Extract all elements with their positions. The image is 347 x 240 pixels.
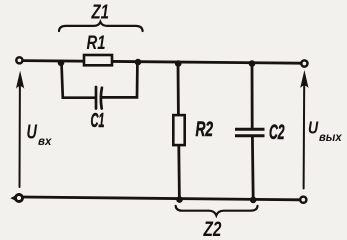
wire bottom — [23, 197, 299, 200]
terminal tail bottom-left — [10, 196, 15, 201]
resistor R1 — [84, 55, 112, 65]
node junction bottom C — [176, 196, 183, 203]
svg-text:U: U — [27, 120, 38, 143]
svg-text:вых: вых — [319, 132, 342, 144]
svg-text:U: U — [308, 118, 318, 138]
capacitor C1 — [96, 87, 102, 109]
node junction top B — [135, 59, 142, 66]
capacitor C2 — [235, 129, 265, 136]
resistor R2 — [173, 115, 184, 145]
terminal bottom-right — [300, 197, 306, 203]
wire R2 bottom lead — [177, 146, 180, 200]
arrowhead Uvyx — [300, 70, 308, 88]
svg-text:C1: C1 — [91, 110, 105, 132]
svg-text:Z2: Z2 — [203, 216, 222, 239]
wire C2 bottom lead — [251, 137, 255, 200]
svg-text:C2: C2 — [269, 119, 285, 143]
arrow Uvyx — [303, 84, 306, 189]
node junction top A — [58, 60, 65, 67]
terminal top-left — [16, 57, 22, 63]
node junction top D — [249, 60, 256, 67]
svg-text:вх: вх — [38, 135, 52, 148]
node junction top C — [175, 60, 182, 67]
brace Z2 — [176, 206, 258, 216]
svg-text:R1: R1 — [87, 32, 106, 53]
brace Z1 — [59, 22, 143, 31]
wire R2 top lead — [177, 64, 180, 115]
svg-text:R2: R2 — [196, 117, 214, 141]
svg-text:Z1: Z1 — [91, 0, 109, 23]
arrowhead Uvx — [16, 71, 24, 89]
arrow Uvx — [19, 84, 21, 187]
wire top — [23, 61, 301, 64]
wire C1 branch right — [102, 63, 137, 97]
node junction bottom D — [250, 197, 257, 204]
terminal top-right — [301, 60, 307, 66]
terminal bottom-left — [16, 195, 23, 202]
wire C1 branch left — [62, 63, 95, 98]
wire C2 top lead — [251, 64, 254, 128]
